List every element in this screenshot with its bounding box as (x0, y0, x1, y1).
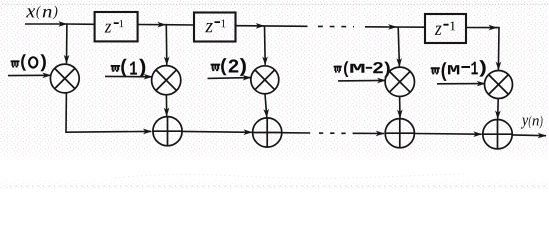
label z^-1 in block Z2 (205, 20, 225, 33)
wire w(0) arrow into M1 (8, 74, 51, 76)
scanner dotted edge top (2, 3, 549, 5)
wire Z2 to tap3 (236, 25, 265, 27)
label z^-1 in block Z3 (435, 22, 456, 35)
label y(n) (521, 116, 543, 129)
wire M1 output down and right into adder A1 (66, 93, 151, 132)
delay block Z1 (95, 12, 138, 41)
wire w(2) arrow into M3 (208, 77, 251, 80)
wire w(M-2) arrow into M4 (338, 79, 385, 82)
wire A1 to A2 (182, 130, 252, 133)
node tap2 junction (165, 24, 194, 26)
wire into adder A3 (353, 132, 384, 134)
faint scan smudge (115, 174, 465, 178)
adder A1 (153, 117, 182, 146)
wire Z3 to corner (466, 27, 497, 29)
wire w(M-1) arrow into M5 (437, 83, 485, 85)
multiplier M5 (485, 71, 513, 99)
wire Z1 to tap2 (138, 24, 166, 26)
wire output y(n) (512, 134, 546, 137)
wire input x(n) (25, 23, 67, 25)
wire M2 output down into adder A1 (165, 95, 167, 116)
label w(1) (111, 59, 146, 78)
adder A4 (483, 120, 512, 149)
label z^-1 in block Z1 (105, 20, 124, 32)
label w(2) (211, 58, 246, 76)
wire tap3 down into multiplier M3 (264, 26, 267, 65)
multiplier M1 (50, 64, 79, 93)
wire A2 out solid (282, 132, 310, 134)
wire bottom dashed continuation (319, 132, 346, 134)
wire corner down into multiplier M5 (496, 28, 499, 70)
label w(0) (11, 54, 46, 71)
wire tap2 down into multiplier M2 (165, 25, 168, 65)
wire tap4 down into multiplier M4 (398, 27, 399, 66)
wire A3 to A4 (414, 133, 481, 136)
wire tap1 down into multiplier M1 (66, 24, 68, 63)
node tap4 junction (396, 26, 425, 28)
label w(M-2) (334, 61, 390, 77)
node tap3 junction (263, 25, 307, 27)
scanner dotted edge bottom (10, 185, 549, 187)
wire w(1) arrow into M2 (105, 75, 152, 77)
delay block Z3 (425, 14, 466, 43)
node tap1 junction (66, 23, 95, 25)
multiplier M2 (152, 66, 181, 95)
wire top dashed continuation (318, 25, 354, 27)
multiplier M3 (251, 66, 279, 94)
adder A3 (385, 119, 414, 148)
label w(M-1) (431, 60, 486, 81)
wire top into tap4 (365, 26, 396, 28)
multiplier M4 (385, 67, 414, 96)
wire M3 output down into adder A2 (265, 94, 267, 117)
wire M4 output down into adder A3 (399, 97, 401, 118)
wire M5 output down into adder A4 (497, 99, 500, 119)
label x(n) (26, 6, 57, 20)
adder A2 (253, 118, 282, 147)
delay block Z2 (194, 13, 236, 42)
